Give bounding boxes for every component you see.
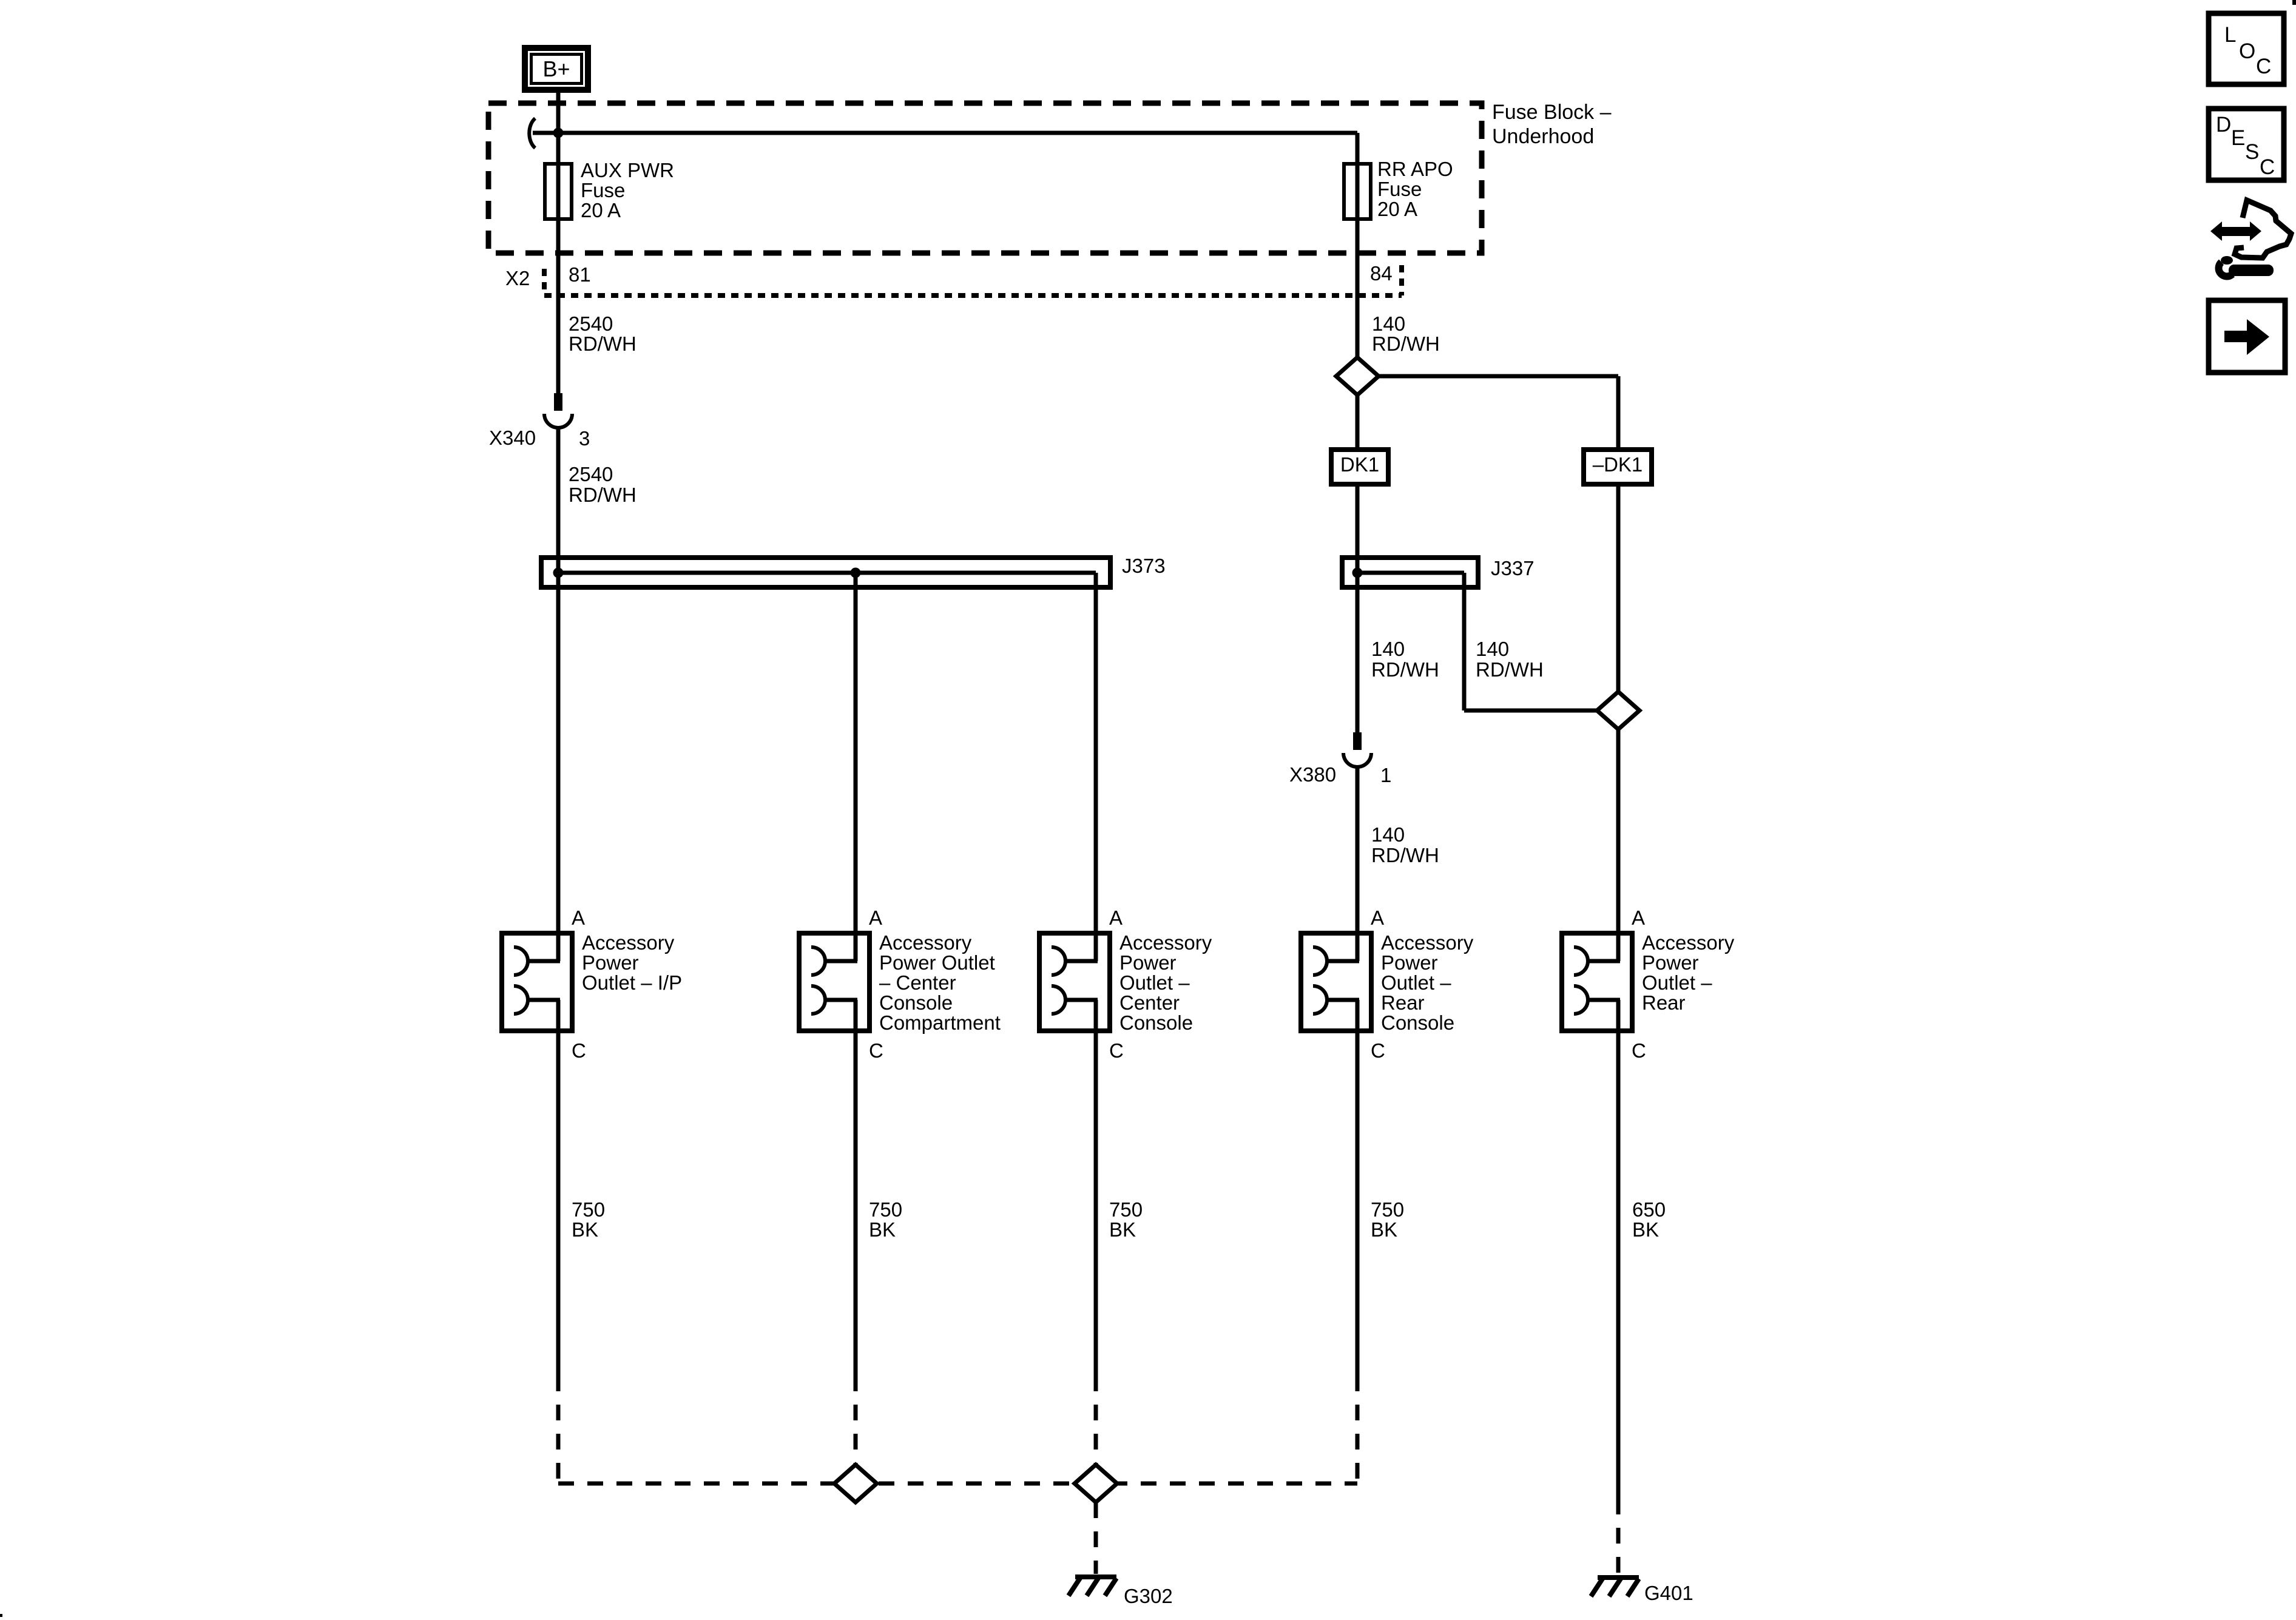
svg-text:RR APO: RR APO bbox=[1377, 158, 1453, 180]
svg-text:C: C bbox=[869, 1039, 883, 1062]
svg-text:S: S bbox=[2245, 140, 2259, 164]
svg-text:Power: Power bbox=[582, 951, 639, 974]
svg-text:Rear: Rear bbox=[1381, 991, 1425, 1014]
svg-text:O: O bbox=[2239, 39, 2255, 63]
svg-text:Rear: Rear bbox=[1642, 991, 1686, 1014]
svg-text:750: 750 bbox=[1371, 1198, 1404, 1221]
svg-text:Fuse: Fuse bbox=[581, 179, 625, 201]
svg-text:X2: X2 bbox=[505, 267, 530, 289]
svg-text:–DK1: –DK1 bbox=[1593, 453, 1643, 476]
svg-text:Power Outlet: Power Outlet bbox=[879, 951, 995, 974]
svg-text:RD/WH: RD/WH bbox=[1371, 844, 1439, 866]
svg-text:DK1: DK1 bbox=[1340, 453, 1379, 476]
svg-text:RD/WH: RD/WH bbox=[569, 484, 636, 506]
svg-text:BK: BK bbox=[1109, 1218, 1136, 1241]
svg-text:A: A bbox=[869, 906, 882, 929]
svg-text:140: 140 bbox=[1476, 638, 1509, 660]
svg-text:Console: Console bbox=[879, 991, 953, 1014]
svg-text:A: A bbox=[572, 906, 585, 929]
svg-text:BK: BK bbox=[572, 1218, 598, 1241]
svg-text:RD/WH: RD/WH bbox=[1372, 332, 1440, 355]
svg-text:X380: X380 bbox=[1289, 763, 1336, 786]
svg-text:1: 1 bbox=[1380, 764, 1391, 786]
svg-text:2540: 2540 bbox=[569, 312, 613, 335]
svg-text:J337: J337 bbox=[1491, 557, 1535, 579]
svg-text:Console: Console bbox=[1119, 1011, 1193, 1034]
svg-text:81: 81 bbox=[569, 263, 591, 286]
svg-text:B+: B+ bbox=[542, 56, 570, 81]
svg-text:G302: G302 bbox=[1124, 1585, 1173, 1607]
svg-text:C: C bbox=[2260, 155, 2275, 179]
svg-text:84: 84 bbox=[1370, 262, 1393, 285]
svg-text:Accessory: Accessory bbox=[879, 931, 972, 954]
svg-text:RD/WH: RD/WH bbox=[569, 332, 636, 355]
svg-text:BK: BK bbox=[1371, 1218, 1397, 1241]
svg-text:20 A: 20 A bbox=[1377, 198, 1417, 220]
svg-text:Fuse Block –: Fuse Block – bbox=[1492, 101, 1612, 124]
svg-text:Power: Power bbox=[1381, 951, 1438, 974]
svg-text:J373: J373 bbox=[1122, 555, 1166, 577]
svg-text:Accessory: Accessory bbox=[582, 931, 675, 954]
svg-text:X340: X340 bbox=[489, 427, 536, 449]
svg-text:Outlet –: Outlet – bbox=[1119, 971, 1190, 994]
svg-text:140: 140 bbox=[1371, 638, 1405, 660]
svg-text:G401: G401 bbox=[1644, 1582, 1693, 1604]
svg-text:Fuse: Fuse bbox=[1377, 178, 1422, 200]
svg-text:C: C bbox=[572, 1039, 586, 1062]
svg-text:3: 3 bbox=[579, 427, 590, 450]
svg-text:E: E bbox=[2231, 126, 2245, 150]
svg-text:650: 650 bbox=[1632, 1198, 1666, 1221]
svg-text:Compartment: Compartment bbox=[879, 1011, 1001, 1034]
svg-text:Accessory: Accessory bbox=[1642, 931, 1735, 954]
svg-text:A: A bbox=[1632, 906, 1645, 929]
svg-text:C: C bbox=[1371, 1039, 1385, 1062]
svg-text:C: C bbox=[1109, 1039, 1124, 1062]
svg-text:BK: BK bbox=[1632, 1218, 1659, 1241]
svg-text:Center: Center bbox=[1119, 991, 1180, 1014]
svg-text:2540: 2540 bbox=[569, 463, 613, 485]
svg-text:L: L bbox=[2224, 23, 2236, 47]
svg-text:Underhood: Underhood bbox=[1492, 125, 1594, 148]
svg-text:750: 750 bbox=[1109, 1198, 1143, 1221]
svg-text:Power: Power bbox=[1642, 951, 1699, 974]
svg-text:Outlet –: Outlet – bbox=[1381, 971, 1451, 994]
svg-text:Outlet – I/P: Outlet – I/P bbox=[582, 971, 682, 994]
svg-text:A: A bbox=[1109, 906, 1123, 929]
svg-text:750: 750 bbox=[572, 1198, 605, 1221]
svg-text:C: C bbox=[2256, 55, 2271, 78]
svg-text:140: 140 bbox=[1372, 312, 1405, 335]
svg-text:RD/WH: RD/WH bbox=[1476, 658, 1544, 681]
svg-text:Accessory: Accessory bbox=[1119, 931, 1212, 954]
svg-text:A: A bbox=[1371, 906, 1384, 929]
svg-text:Console: Console bbox=[1381, 1011, 1454, 1034]
svg-text:Accessory: Accessory bbox=[1381, 931, 1474, 954]
svg-text:AUX PWR: AUX PWR bbox=[581, 159, 674, 181]
svg-text:BK: BK bbox=[869, 1218, 896, 1241]
svg-text:140: 140 bbox=[1371, 823, 1405, 846]
svg-text:Power: Power bbox=[1119, 951, 1177, 974]
svg-text:D: D bbox=[2216, 113, 2231, 137]
svg-text:750: 750 bbox=[869, 1198, 902, 1221]
svg-text:Outlet –: Outlet – bbox=[1642, 971, 1712, 994]
svg-text:C: C bbox=[1632, 1039, 1646, 1062]
svg-text:RD/WH: RD/WH bbox=[1371, 658, 1439, 681]
svg-text:20 A: 20 A bbox=[581, 199, 621, 221]
svg-text:– Center: – Center bbox=[879, 971, 956, 994]
